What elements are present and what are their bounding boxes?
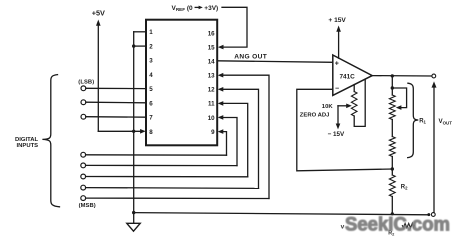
op-amp U2 741C	[333, 55, 372, 95]
svg-text:+5V: +5V	[92, 9, 105, 18]
svg-text:(MSB): (MSB)	[79, 203, 96, 209]
node input 3 terminal	[81, 114, 86, 119]
wire pin 1 stub	[134, 31, 146, 33]
node input 8 terminal MSB	[81, 196, 86, 201]
svg-text:3: 3	[149, 58, 153, 65]
watermark fragment R2	[388, 230, 395, 236]
svg-text:741C: 741C	[340, 73, 356, 80]
arrowhead wiper	[346, 104, 352, 109]
svg-text:13: 13	[208, 73, 215, 80]
label 10K	[322, 104, 334, 110]
svg-text:v: v	[341, 223, 345, 230]
label ANG OUT	[234, 54, 267, 61]
watermark fragment squiggle	[402, 223, 414, 227]
wire +5V to pin 8	[98, 130, 141, 132]
pin numbers right	[208, 30, 215, 136]
wire bottom rail	[134, 213, 430, 215]
wire +15V to op-amp	[338, 30, 340, 58]
svg-text:10K: 10K	[322, 104, 334, 110]
svg-text:2: 2	[149, 43, 153, 50]
svg-text:−: −	[335, 85, 339, 92]
svg-text:15: 15	[208, 44, 215, 51]
wire ground vertical	[133, 32, 135, 224]
arrowhead into pin 8	[140, 129, 146, 134]
wire inverting input feedback loop	[297, 89, 393, 171]
svg-text:+3V): +3V)	[204, 5, 218, 12]
watermark fragment v	[341, 223, 345, 230]
wire input8 row	[86, 197, 269, 199]
arrowhead Vout measure	[432, 81, 437, 87]
svg-text:− 15V: − 15V	[328, 131, 345, 138]
wire +5V vertical	[97, 25, 99, 132]
node input 6 terminal	[81, 174, 86, 179]
wire op-amp output	[372, 75, 432, 77]
resistor R1 lower body	[389, 137, 395, 157]
arrowhead into pin 15	[218, 45, 224, 50]
wire Vref to pin 15	[222, 7, 247, 47]
wire Vout span	[433, 87, 435, 213]
watermark SeekIC.com	[345, 214, 450, 235]
svg-text:11: 11	[208, 101, 215, 108]
wire pin 14 analog out	[217, 61, 333, 63]
label R1	[419, 118, 426, 124]
wire input4 vertical to pin 9	[222, 132, 226, 156]
svg-text:ZERO ADJ: ZERO ADJ	[300, 113, 330, 119]
label +15V	[328, 17, 346, 24]
arrowhead into pin 13	[218, 73, 224, 78]
label Vout	[439, 118, 453, 125]
label (MSB)	[79, 203, 96, 209]
junction dot ground rail	[132, 211, 135, 214]
svg-text:6: 6	[149, 100, 153, 107]
brace R1	[408, 83, 419, 157]
potentiometer 10K body	[351, 92, 357, 117]
svg-text:8: 8	[149, 129, 153, 136]
label ZERO ADJ	[300, 113, 330, 119]
wire input5 vertical to pin 10	[222, 118, 237, 166]
svg-text:ANG OUT: ANG OUT	[234, 54, 267, 61]
node input 7 terminal	[81, 185, 86, 190]
svg-text:9: 9	[211, 129, 215, 136]
wire input7 row	[86, 187, 259, 190]
junction dot +5V/ground vertical	[132, 130, 135, 133]
+5V arrowhead	[96, 20, 101, 26]
pin numbers left	[149, 29, 153, 136]
arrow in Vref label	[195, 6, 200, 8]
svg-text:VOUT: VOUT	[439, 118, 453, 125]
wire input2 to pin 6	[86, 101, 146, 104]
node input 4 terminal	[81, 152, 86, 157]
arrowhead -15V	[336, 124, 341, 130]
node Vout top terminal	[432, 74, 436, 78]
svg-text:+: +	[335, 60, 339, 67]
svg-text:INPUTS: INPUTS	[17, 143, 39, 149]
wire between R1 sections	[391, 120, 393, 137]
wire wiper to -15V	[337, 106, 339, 125]
IC U1 (16-pin DAC)	[146, 20, 217, 146]
label -15V	[328, 131, 345, 138]
svg-text:5: 5	[149, 86, 153, 93]
wire input6 row	[86, 176, 248, 178]
+5V supply label	[92, 9, 105, 18]
wire input7 vertical to pin 12	[222, 89, 258, 188]
resistor R2 body	[389, 175, 395, 197]
wire R2 to rail	[391, 197, 393, 215]
label R2	[401, 185, 408, 191]
junction dot R2/rail	[391, 212, 394, 215]
wire output to R1	[391, 76, 393, 95]
wire pot top to op-amp	[353, 85, 355, 92]
brace digital inputs	[42, 75, 59, 207]
svg-text:7: 7	[149, 115, 153, 122]
wire input4 row	[86, 154, 227, 156]
label DIGITAL INPUTS	[15, 137, 39, 149]
svg-text:R2: R2	[401, 185, 408, 191]
node input 1 terminal	[81, 86, 86, 91]
arrowhead into pin 12	[218, 87, 224, 92]
arrowhead +15V	[336, 26, 341, 32]
arrowhead into pin 10	[218, 115, 224, 120]
node Vout bottom terminal	[431, 213, 435, 217]
svg-text:16: 16	[208, 30, 215, 37]
arrowhead R1 wiper	[396, 105, 402, 110]
arrowhead into pin 9	[218, 129, 224, 134]
ground	[127, 223, 140, 231]
wire pin 2 stub	[134, 45, 146, 47]
wire input1 to pin 5	[86, 87, 146, 89]
svg-text:10: 10	[208, 115, 215, 122]
svg-text:1: 1	[149, 29, 153, 36]
svg-text:4: 4	[149, 72, 153, 79]
junction dot pin2	[132, 44, 135, 47]
svg-text:VREF (0: VREF (0	[172, 5, 194, 12]
label Vref	[172, 5, 219, 12]
junction dot R1 wiper loop	[391, 86, 394, 89]
arrowhead into pin 11	[218, 101, 224, 106]
label (LSB)	[78, 79, 94, 85]
wire input8 vertical to pin 13	[222, 75, 269, 198]
junction dot feedback/R chain	[391, 167, 394, 170]
wire input3 to pin 7	[86, 116, 146, 119]
resistor R1 upper body	[389, 95, 395, 120]
wire input5 row	[86, 164, 237, 166]
node input 5 terminal	[81, 163, 86, 168]
svg-text:DIGITAL: DIGITAL	[15, 137, 39, 143]
junction dot output/R1	[391, 74, 394, 77]
wire R1 to feedback node	[391, 157, 393, 176]
svg-text:SeekIC.com: SeekIC.com	[345, 214, 450, 235]
wiper wire	[338, 105, 348, 107]
svg-text:R1: R1	[419, 118, 426, 124]
svg-text:14: 14	[208, 58, 215, 65]
wire input6 vertical to pin 11	[222, 103, 247, 176]
wire pot bottom loop to op-amp	[354, 79, 365, 126]
wire R1 wiper loop	[392, 88, 406, 108]
node input 2 terminal	[81, 100, 86, 105]
junction dot rail end	[427, 213, 430, 216]
svg-text:12: 12	[208, 87, 215, 94]
svg-text:+ 15V: + 15V	[328, 17, 346, 24]
svg-text:(LSB): (LSB)	[78, 79, 94, 85]
